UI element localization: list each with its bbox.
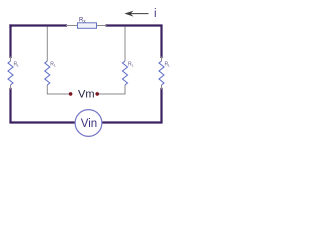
- svg-text:i: i: [154, 8, 157, 20]
- svg-text:RL: RL: [14, 62, 20, 68]
- svg-text:RL: RL: [50, 62, 56, 68]
- svg-text:Vm: Vm: [78, 89, 95, 101]
- svg-text:RL: RL: [128, 62, 134, 68]
- svg-text:RL: RL: [165, 62, 171, 68]
- svg-text:Vin: Vin: [81, 118, 97, 130]
- svg-text:Rx: Rx: [79, 18, 86, 24]
